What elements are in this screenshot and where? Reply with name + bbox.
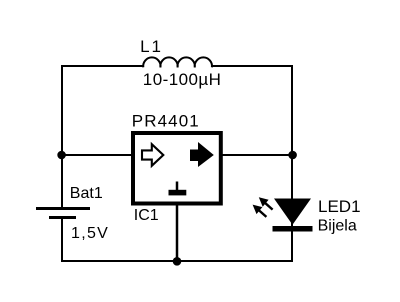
IC ground symbol bar xyxy=(169,190,187,196)
svg-text:L1: L1 xyxy=(140,37,163,56)
wire battery negative to bottom rail xyxy=(61,219,63,262)
wire IC ground pin to bottom rail xyxy=(176,206,179,263)
node B junction dot xyxy=(288,151,297,160)
wire node A to IC pin 1 xyxy=(61,154,133,156)
wire LED branch vertical xyxy=(291,155,293,262)
battery Bat1 short plate xyxy=(49,216,76,219)
svg-text:IC1: IC1 xyxy=(134,207,159,224)
op IC box U1 PR4401 xyxy=(133,133,221,204)
node A junction dot xyxy=(57,151,66,160)
svg-text:1,5V: 1,5V xyxy=(71,225,109,242)
IC output arrow (filled) xyxy=(190,142,214,167)
LED cathode bar xyxy=(273,226,313,232)
svg-text:Bat1: Bat1 xyxy=(70,185,103,202)
battery Bat1 long plate xyxy=(36,207,90,210)
svg-text:LED1: LED1 xyxy=(318,197,361,216)
wire top rail right segment xyxy=(212,66,293,155)
wire IC pin 2 to node B xyxy=(221,154,293,156)
LED light arrow 1 xyxy=(259,197,273,209)
LED D1 triangle xyxy=(274,199,311,225)
svg-text:Bijela: Bijela xyxy=(318,218,357,235)
wire bottom rail xyxy=(61,260,293,262)
inductor L1 xyxy=(143,57,212,67)
svg-text:10-100µH: 10-100µH xyxy=(143,70,222,89)
svg-text:PR4401: PR4401 xyxy=(132,111,200,130)
IC ground symbol stub xyxy=(176,182,179,191)
wire top rail left segment xyxy=(62,66,144,155)
LED light arrow 2 xyxy=(253,205,267,217)
node C junction dot (bottom) xyxy=(173,257,182,266)
IC input arrow (outline) xyxy=(142,144,163,166)
wire left vertical to battery xyxy=(61,155,63,207)
